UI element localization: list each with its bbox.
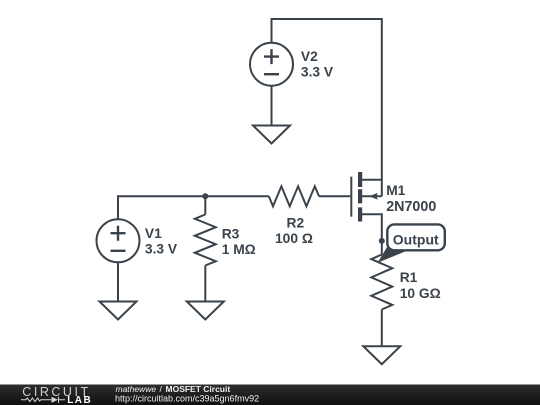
svg-text:R3: R3 bbox=[222, 226, 240, 241]
transistor M1 body arrow bbox=[370, 193, 378, 200]
svg-text:R1: R1 bbox=[400, 270, 418, 285]
svg-text:1 MΩ: 1 MΩ bbox=[222, 242, 256, 257]
ground below R3 bbox=[187, 302, 224, 320]
svg-text:3.3 V: 3.3 V bbox=[145, 241, 178, 256]
wire V1 to ground bbox=[117, 262, 119, 301]
svg-text:2N7000: 2N7000 bbox=[386, 199, 436, 215]
node Output junction dot bbox=[379, 238, 385, 244]
node Output callout bubble bbox=[387, 224, 445, 250]
ground below V1 bbox=[100, 302, 137, 320]
svg-text:V2: V2 bbox=[301, 49, 318, 64]
ground below R1 bbox=[363, 346, 400, 364]
svg-text:http://circuitlab.com/c39a5gn6: http://circuitlab.com/c39a5gn6fmv92 bbox=[115, 394, 259, 404]
ground below V2 bbox=[253, 126, 290, 144]
resistor R1 bbox=[371, 255, 392, 310]
node junction at R3 top bbox=[202, 193, 208, 199]
node Output callout tail bbox=[378, 243, 411, 263]
footer bar bbox=[0, 385, 540, 405]
svg-text:100 Ω: 100 Ω bbox=[275, 231, 313, 246]
wire V2 to ground bbox=[271, 86, 273, 126]
wire R1 to ground bbox=[381, 310, 383, 347]
transistor M1 body connection bbox=[362, 195, 382, 197]
svg-text:R2: R2 bbox=[287, 215, 305, 230]
wire R3 to ground bbox=[204, 266, 206, 302]
resistor R2 bbox=[269, 186, 319, 206]
resistor R3 bbox=[195, 215, 216, 266]
transistor M1 channel bars bbox=[358, 172, 362, 222]
svg-text:V1: V1 bbox=[145, 226, 162, 241]
svg-text:mathewwe: mathewwe bbox=[116, 384, 157, 394]
svg-text:Output: Output bbox=[393, 231, 439, 247]
svg-text:LAB: LAB bbox=[67, 395, 91, 405]
transistor M1 drain connection bbox=[362, 179, 382, 181]
footer logo resistor-diode symbol bbox=[21, 397, 65, 403]
svg-text:MOSFET Circuit: MOSFET Circuit bbox=[166, 384, 231, 394]
svg-text:3.3 V: 3.3 V bbox=[301, 65, 334, 80]
wire node to R3 bbox=[204, 196, 206, 214]
voltage source V1 bbox=[97, 219, 140, 262]
wire R2 to gate bbox=[319, 195, 350, 197]
svg-text:M1: M1 bbox=[386, 183, 405, 198]
transistor M1 gate bar bbox=[350, 177, 352, 217]
voltage source V2 bbox=[250, 43, 293, 86]
transistor M1 source connection and wire to output node bbox=[362, 214, 382, 254]
svg-text:10 GΩ: 10 GΩ bbox=[400, 286, 441, 301]
wire V1 top to gate bus bbox=[118, 196, 269, 219]
wire top rail V2 to M1 drain bbox=[272, 19, 382, 196]
